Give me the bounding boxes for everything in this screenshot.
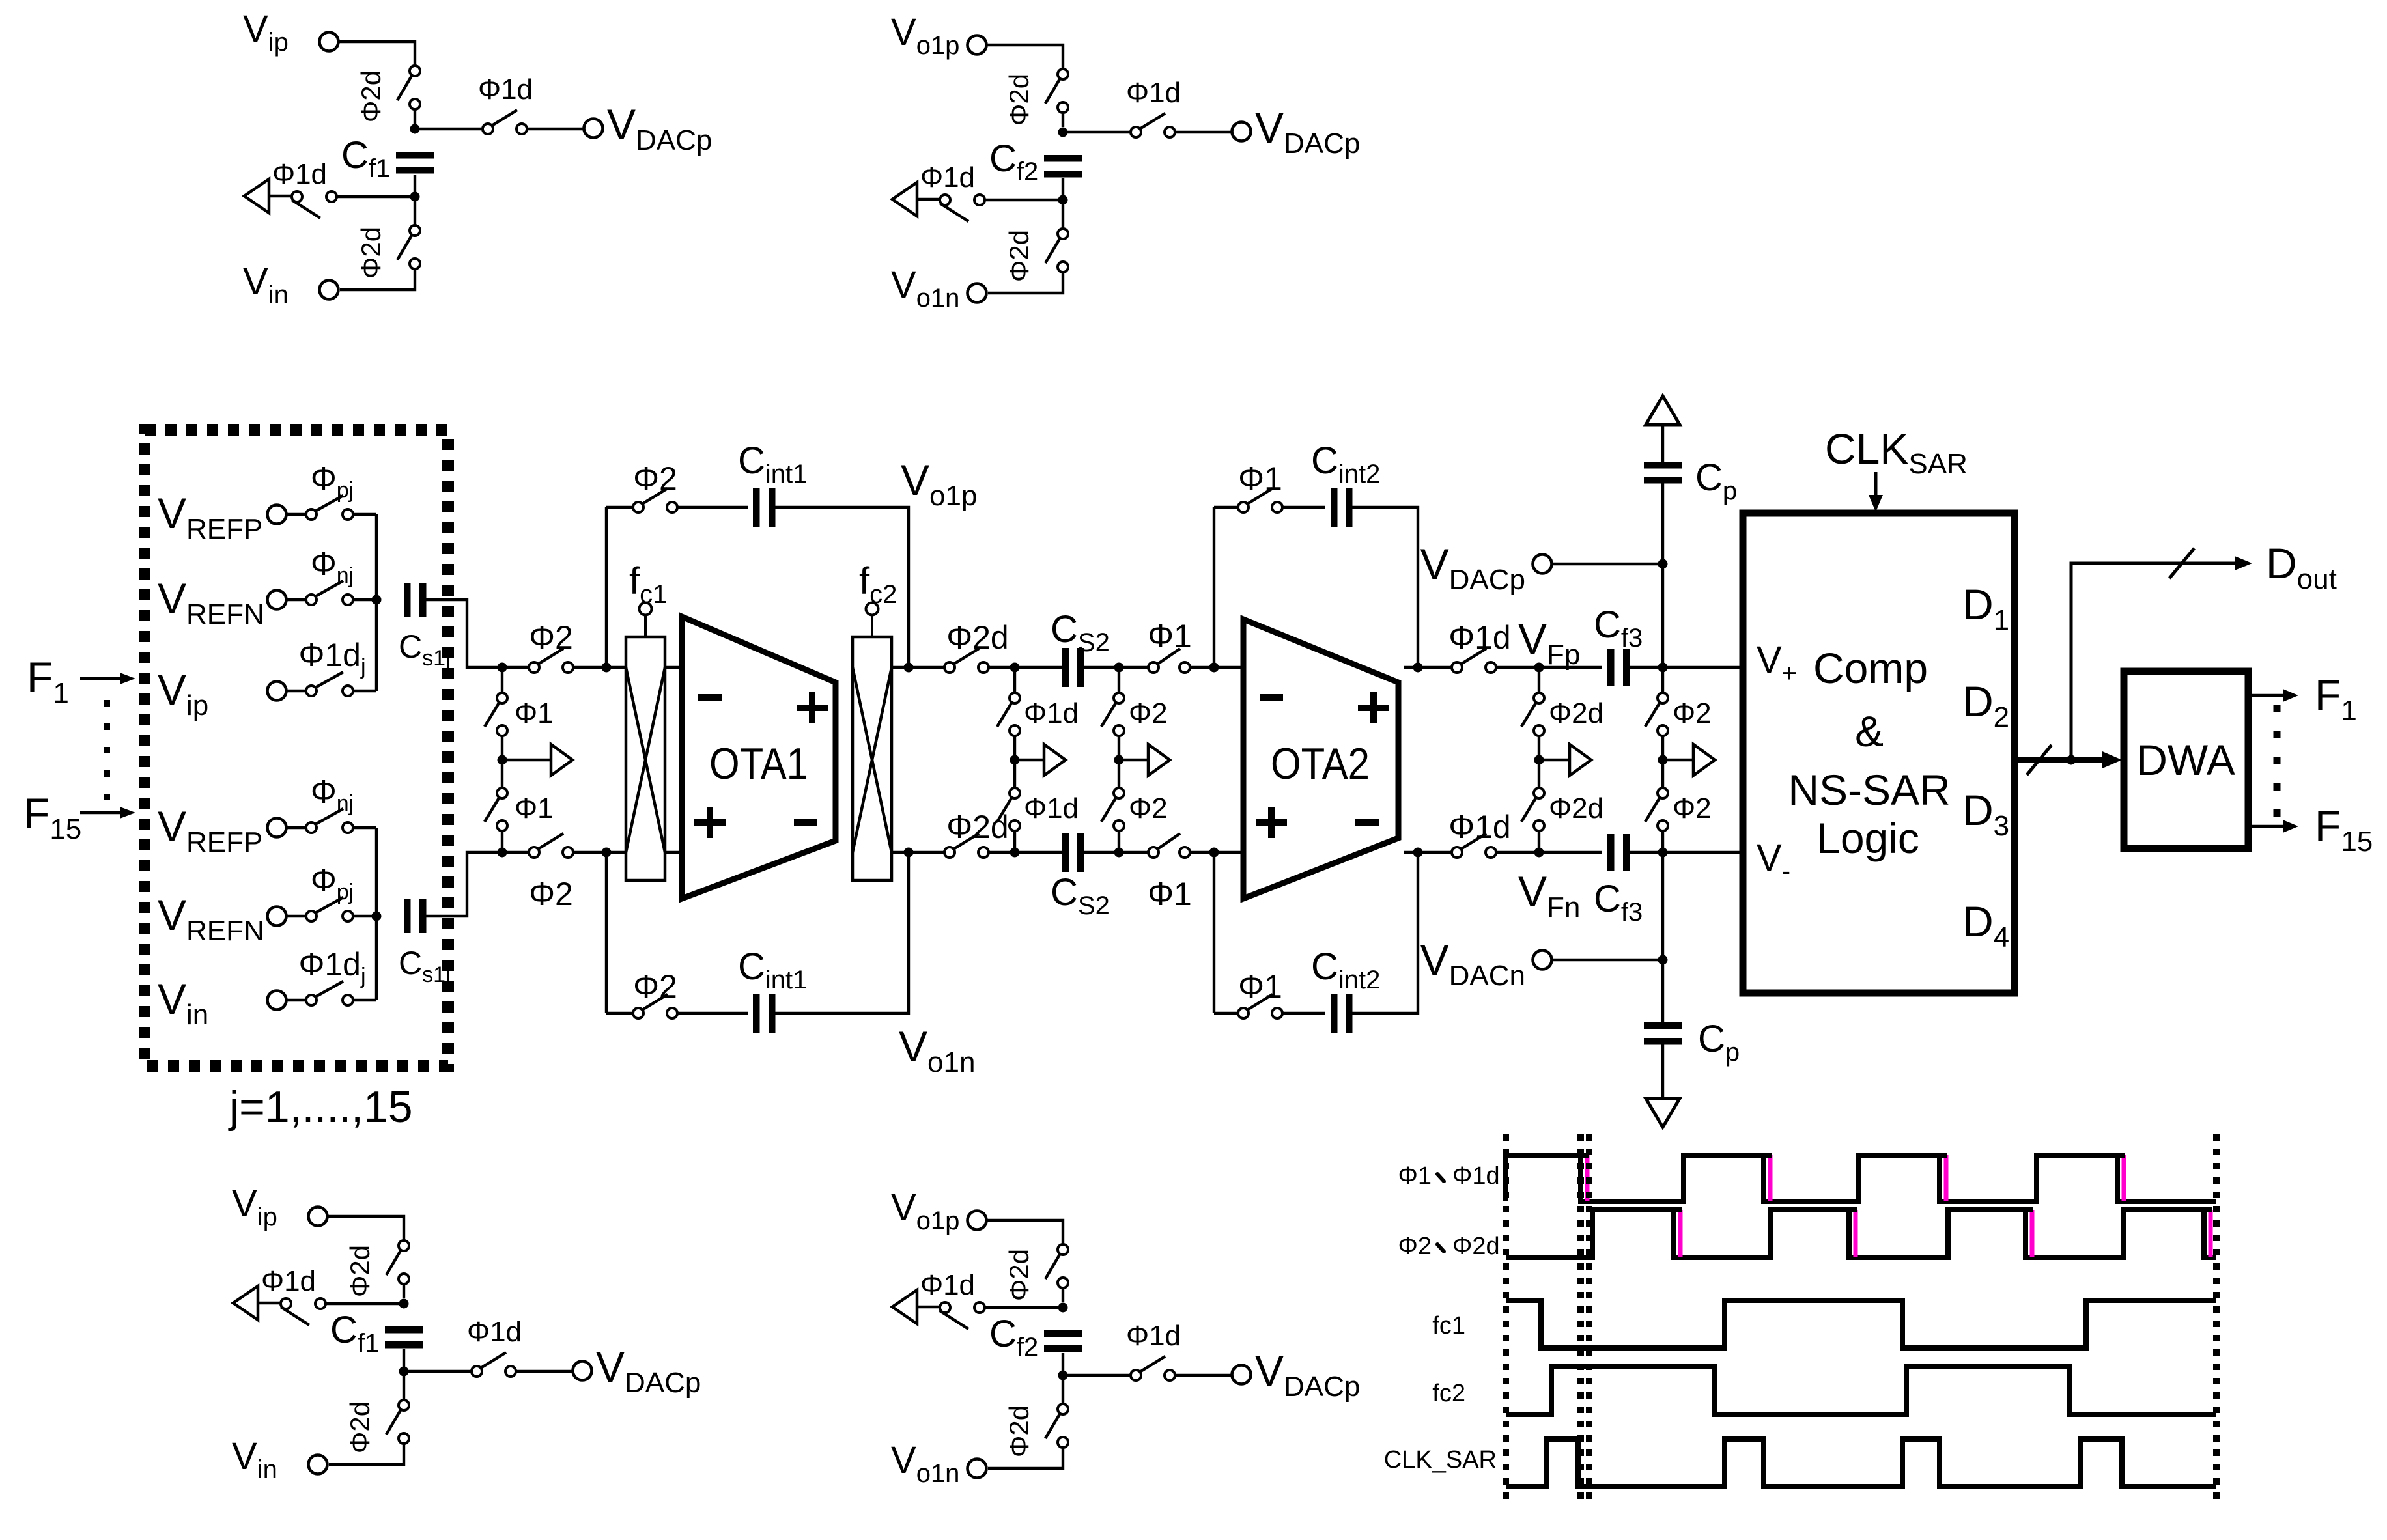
switch Phi2d CM out lower: [1521, 788, 1544, 831]
svg-text:fc1: fc1: [1432, 1312, 1465, 1339]
delayed falling edge marker (Phi1/Phi1d): [1944, 1155, 1949, 1201]
capacitor Cint2 bottom: [1331, 994, 1353, 1033]
capacitor Cs1j upper: [404, 583, 427, 617]
wire: [1062, 178, 1064, 195]
svg-text:Φ1d: Φ1d: [1024, 792, 1079, 824]
wire to bus: [353, 690, 376, 692]
terminal Vin (bottom-left): [309, 1455, 328, 1474]
wire: [414, 109, 416, 124]
svg-text:Φ2d: Φ2d: [1004, 230, 1034, 282]
wire to buffer: [502, 759, 551, 761]
arrowhead F1: [120, 673, 135, 684]
terminal VREFP: [268, 505, 287, 524]
switch Phi2 CM stage2 lower: [1101, 788, 1124, 831]
svg-text:Φ1d: Φ1d: [920, 1269, 975, 1301]
slash bus width Dout: [2169, 548, 2194, 578]
wire: [287, 690, 306, 692]
switch Phi1d to VDACp (bottom-left): [472, 1352, 516, 1377]
svg-text:Φ1: Φ1: [1148, 876, 1192, 912]
OTA1 minus bottom: [794, 819, 817, 826]
wire to CS2 top: [989, 666, 1063, 669]
wire OTA2 out top: [1404, 666, 1452, 669]
wire to CM triangle: [917, 198, 940, 201]
switch Phi1d to VDACp (top-left): [483, 110, 527, 134]
OTA1 plus top: [797, 692, 828, 723]
node feedback tap bottom: [602, 848, 612, 858]
svg-text:NS-SAR: NS-SAR: [1788, 766, 1950, 814]
switch Phi1d to VDACp (top-middle): [1131, 113, 1175, 137]
wire Vip to switch (top-left): [339, 42, 415, 66]
buffer CM stage2b: [1148, 744, 1170, 776]
wire to buffer: [1663, 759, 1693, 761]
block DWA: [2124, 671, 2248, 848]
OTA2 plus bottom: [1256, 807, 1287, 838]
wire: [1538, 831, 1540, 852]
wire to chopper fc1 top: [573, 666, 626, 669]
capacitor Cf1 (top-left): [396, 152, 434, 174]
node CS2 left bottom: [1010, 848, 1020, 858]
CM reference triangle (top-middle): [892, 182, 917, 216]
node Vo1p junction: [904, 663, 914, 673]
node CS2 right bottom: [1114, 848, 1124, 858]
svg-text:Φ2: Φ2: [1129, 697, 1168, 729]
OTA1 minus top: [698, 694, 722, 701]
wire: [1282, 1012, 1325, 1015]
switch Phi2d upper (bottom-left): [386, 1240, 409, 1284]
wire to CM triangle: [917, 1306, 940, 1308]
capacitor Cp bottom: [1644, 1022, 1682, 1045]
wire to buffer: [1015, 759, 1044, 761]
switch Phi1 feedback2 top: [1238, 488, 1282, 512]
svg-text:Φ2: Φ2: [1129, 792, 1168, 824]
svg-text:Φ2d: Φ2d: [946, 809, 1009, 845]
terminal VDACp (top-left): [584, 119, 603, 138]
wire to Vo1n terminal: [988, 272, 1063, 293]
svg-text:Φ2d: Φ2d: [1004, 1249, 1034, 1301]
node bus lower junction: [372, 912, 382, 921]
wire Vo1p to switch (bottom-middle): [987, 1220, 1063, 1244]
wire: [1214, 506, 1238, 509]
wire: [1118, 667, 1120, 693]
switch Phi2d output bottom: [944, 833, 989, 858]
node OTA2 in bottom: [1209, 848, 1219, 858]
arrowhead F15: [120, 807, 135, 819]
wire Vip to switch (bottom-left): [328, 1216, 404, 1240]
wire to Phi1d switch: [1063, 131, 1131, 133]
svg-text:Φ1: Φ1: [1238, 968, 1282, 1005]
wire fc2 to Phi2d top: [892, 666, 952, 669]
svg-text:Φ2d: Φ2d: [356, 227, 386, 279]
wire to Phi1d CM switch: [985, 1306, 1063, 1309]
node CS2 right top: [1114, 663, 1124, 673]
wire: [287, 915, 306, 917]
switch Phi1d to CM (bottom-left): [281, 1298, 326, 1325]
wire feedback2 top to output: [1352, 507, 1418, 667]
svg-text:Φ1d: Φ1d: [920, 161, 975, 193]
svg-text:Φ2d: Φ2d: [1452, 1233, 1500, 1260]
node Dout tap: [2067, 755, 2076, 765]
supply triangle top: [1646, 396, 1680, 425]
wire to Phi1d CM switch: [337, 195, 415, 198]
wire: [1282, 506, 1325, 509]
wire VDACn: [1552, 959, 1663, 961]
waveform Phi2/Phi2d: [1506, 1210, 2216, 1257]
svg-text:Φ2d: Φ2d: [356, 70, 386, 122]
CM reference triangle (top-left): [244, 179, 269, 213]
wire feedback top to output: [774, 507, 909, 667]
switch Phi1 upper CM: [485, 693, 507, 736]
svg-text:CLK_SAR: CLK_SAR: [1384, 1446, 1497, 1474]
svg-text:Φ2: Φ2: [1673, 792, 1712, 824]
waveform Phi1/Phi1d: [1506, 1155, 2216, 1201]
switch Φnj: [306, 581, 353, 605]
wire: [287, 999, 306, 1001]
wire to comparator V-: [1629, 851, 1743, 854]
wire VFp: [1496, 666, 1602, 669]
svg-text:Φ1: Φ1: [515, 792, 554, 824]
wire to bus: [353, 999, 376, 1001]
OTA1 plus bottom: [694, 807, 726, 838]
wire: [1214, 1012, 1238, 1015]
arrowhead CLK_SAR: [1869, 495, 1883, 512]
svg-text:Φ1dj: Φ1dj: [298, 637, 365, 679]
wire: [1538, 667, 1540, 693]
dashed box: capacitor DAC slice j: [145, 430, 448, 1066]
dotted cursor line: [2213, 1134, 2220, 1504]
switch Phi2d lower (bottom-middle): [1045, 1404, 1068, 1448]
capacitor CS2 top: [1062, 648, 1084, 687]
node CM junction stage2b: [1114, 755, 1124, 765]
wire: [606, 1012, 633, 1015]
wire: [1013, 831, 1016, 852]
node bus upper junction: [372, 595, 382, 605]
wire: [1538, 736, 1540, 788]
switch Phi2 CM comp upper: [1645, 693, 1668, 736]
wire: [1062, 1353, 1064, 1371]
node V+ junction: [1658, 663, 1668, 673]
svg-text:Φ1d: Φ1d: [478, 74, 533, 105]
wire Dout branch: [2071, 563, 2237, 760]
switch Phi1d to VDACp (bottom-middle): [1131, 1356, 1175, 1380]
wire feedback2 bottom vertical: [1213, 852, 1215, 1013]
wire to OTA2 bottom: [1190, 851, 1243, 854]
terminal Vip (bottom-left): [309, 1207, 328, 1226]
switch Phi2 CM stage2 upper: [1101, 693, 1124, 736]
wire: [1062, 1380, 1064, 1404]
label Phi1, Phi1d: [1398, 1162, 1500, 1190]
wire: [1062, 113, 1064, 127]
wire to OTA2 top: [1190, 666, 1243, 669]
wire: [1118, 736, 1120, 788]
node feedback2 tap top: [1413, 663, 1423, 673]
wire Cs1j to top rail: [425, 600, 529, 667]
dotted line between F1 and F15: [104, 700, 110, 800]
wire to VDACp terminal: [527, 128, 584, 130]
wire CS2 to Phi1 top: [1084, 666, 1148, 669]
wire to CM triangle: [258, 1302, 281, 1304]
svg-text:Φ2: Φ2: [1673, 697, 1712, 729]
switch Phi1d out bottom: [1452, 833, 1496, 858]
svg-text:Φ1d: Φ1d: [1126, 77, 1181, 109]
capacitor Cint1 top: [753, 488, 776, 527]
wire: [677, 1012, 748, 1015]
wire: [403, 1284, 405, 1298]
dotted cursor line: [1503, 1134, 1509, 1504]
waveform fc2: [1506, 1367, 2216, 1414]
wire: [287, 598, 306, 601]
CM reference triangle (bottom-left): [233, 1286, 258, 1320]
wire to buffer: [1119, 759, 1148, 761]
switch Phi2d upper (top-middle): [1045, 69, 1068, 113]
node CM junction comp: [1658, 755, 1668, 765]
wire: [1013, 667, 1016, 693]
svg-text:Φ1d: Φ1d: [467, 1316, 522, 1348]
wire feedback bottom to output: [774, 852, 909, 1013]
wire feedback2 bottom to output: [1352, 852, 1418, 1013]
wire chopper to OTA1 bottom: [665, 851, 682, 854]
node VFp: [1534, 663, 1544, 673]
wire to Phi1d switch: [404, 1370, 472, 1373]
svg-text:Φ2d: Φ2d: [1549, 697, 1603, 729]
wire to Vin terminal: [329, 1444, 404, 1464]
buffer CM comp: [1693, 744, 1715, 776]
switch Phi1d CM stage2 upper: [997, 693, 1020, 736]
wire VDACp: [1552, 563, 1663, 565]
node CM junction input: [498, 755, 507, 765]
terminal Vip (top-left): [320, 33, 339, 51]
node bottom of Cf2 (bottom-middle): [1058, 1371, 1068, 1380]
wire DAC bus lower: [375, 828, 378, 1000]
node CM junction out: [1534, 755, 1544, 765]
capacitor Cs1j lower: [404, 899, 427, 933]
arrowhead F1 out: [2283, 689, 2298, 702]
svg-text:Φ2d: Φ2d: [1004, 1405, 1034, 1457]
node CS2 left top: [1010, 663, 1020, 673]
wire F1 out: [2248, 694, 2283, 697]
terminal Vo1p (bottom-middle): [968, 1211, 987, 1230]
wire: [1661, 426, 1664, 462]
switch Φ1dj: [306, 981, 353, 1005]
wire DAC bus upper: [375, 514, 378, 691]
terminal Vin (top-left): [320, 281, 339, 300]
arrowhead into DWA: [2102, 751, 2122, 768]
wire: [501, 736, 503, 788]
op-amp OTA2: [1243, 619, 1398, 899]
node feedback2 tap bottom: [1413, 848, 1423, 858]
capacitor Cint1 bottom: [753, 994, 776, 1033]
svg-text:j=1,....,15: j=1,....,15: [228, 1082, 413, 1132]
svg-text:Φ1d: Φ1d: [1452, 1162, 1500, 1190]
switch Phi1d to CM (top-left): [292, 191, 337, 218]
svg-text:Φ1d: Φ1d: [1024, 697, 1079, 729]
terminal VDACp main: [1533, 555, 1552, 574]
wire: [1062, 204, 1064, 229]
slash bus width comp out: [2027, 745, 2052, 775]
node bottom of Cf1 (top-left): [410, 192, 420, 202]
switch Φ1dj: [306, 672, 353, 696]
waveform fc1: [1506, 1300, 2216, 1348]
switch Phi1 into OTA2 bottom: [1148, 833, 1190, 858]
svg-text:Logic: Logic: [1816, 814, 1919, 862]
dotted cursor line: [1577, 1134, 1584, 1504]
svg-text:Comp: Comp: [1813, 644, 1928, 692]
delayed falling edge marker (Phi2/Phi2d): [1678, 1210, 1683, 1257]
switch Phi1 into OTA2 top: [1148, 649, 1190, 673]
capacitor Cint2 top: [1331, 488, 1353, 527]
switch Phi2 feedback top: [633, 488, 677, 512]
capacitor Cf2 (bottom-middle): [1044, 1330, 1082, 1352]
svg-text:OTA1: OTA1: [709, 739, 808, 789]
terminal Vo1p (top-middle): [968, 36, 987, 55]
wire: [403, 1376, 405, 1400]
wire: [606, 506, 633, 509]
wire V- to Cp bottom: [1661, 852, 1664, 1023]
svg-text:Φ2d: Φ2d: [1004, 74, 1034, 126]
switch Phi2 CM comp lower: [1645, 788, 1668, 831]
chopper fc2: [853, 603, 892, 881]
wire: [1661, 667, 1664, 693]
node VDACp junction: [1658, 559, 1668, 569]
terminal VDACn main: [1533, 951, 1552, 970]
svg-text:Φ1: Φ1: [515, 697, 554, 729]
wire: [1013, 736, 1016, 788]
switch Φpj: [306, 897, 353, 921]
wire to bus: [353, 915, 376, 917]
node bottom of Cf2 (top-middle): [1058, 195, 1068, 205]
switch Φpj: [306, 496, 353, 520]
node feedback tap top: [602, 663, 612, 673]
svg-text:Φ1d: Φ1d: [1448, 619, 1511, 656]
node top of Cf2 (top-middle): [1058, 128, 1068, 137]
svg-text:fc2: fc2: [1432, 1380, 1465, 1407]
svg-text:Φ1dj: Φ1dj: [298, 946, 365, 988]
buffer CM input: [551, 744, 572, 776]
op-amp OTA1: [682, 617, 836, 899]
OTA2 plus top: [1358, 692, 1389, 723]
waveform CLK_SAR: [1506, 1439, 2216, 1487]
terminal Vin: [268, 991, 287, 1010]
switch Phi1d out top: [1452, 649, 1496, 673]
terminal VREFN: [268, 591, 287, 609]
wire to Vo1n terminal: [988, 1448, 1063, 1468]
svg-text:Φ1d: Φ1d: [261, 1265, 316, 1297]
wire feedback top vertical: [605, 507, 608, 667]
wire: [1661, 831, 1664, 852]
wire chopper to OTA1 top: [665, 666, 682, 669]
wire Vo1p to switch (top-middle): [987, 45, 1063, 69]
wire OTA2 out bottom: [1404, 851, 1452, 854]
wire: [1661, 736, 1664, 788]
OTA2 minus top: [1260, 694, 1283, 701]
wire to Phi1d CM switch: [326, 1302, 404, 1305]
wire Cp top to V+ node: [1661, 480, 1664, 667]
capacitor CS2 bottom: [1062, 833, 1084, 872]
wire to comparator V+: [1629, 666, 1743, 669]
delayed falling edge marker (Phi2/Phi2d): [2209, 1210, 2213, 1257]
arrowhead Dout: [2235, 556, 2252, 570]
wire to CS2 bottom: [989, 851, 1063, 854]
wire: [287, 826, 306, 829]
svg-text:Φ1: Φ1: [1148, 618, 1192, 654]
svg-text:&: &: [1855, 707, 1884, 755]
wire VFn: [1496, 851, 1602, 854]
terminal VREFP: [268, 819, 287, 837]
wire: [287, 513, 306, 516]
wire to Phi1d CM switch: [985, 199, 1063, 201]
switch Phi1d to CM (top-middle): [940, 195, 985, 221]
svg-text:Φ2d: Φ2d: [1549, 792, 1603, 824]
node V- junction: [1658, 848, 1668, 858]
switch Phi1d to CM (bottom-middle): [940, 1302, 985, 1329]
chopper fc1: [626, 603, 665, 881]
wire F15 arrow: [80, 811, 128, 814]
switch Phi2d output top: [944, 649, 989, 673]
node CM junction stage2: [1010, 755, 1020, 765]
svg-text:Φ2: Φ2: [633, 968, 677, 1005]
wire F15 out: [2248, 825, 2283, 828]
terminal Vo1n (top-middle): [968, 284, 987, 303]
terminal VDACp (bottom-middle): [1232, 1365, 1251, 1384]
block Comp & NS-SAR Logic: [1743, 513, 2014, 993]
svg-text:Φ1: Φ1: [1398, 1162, 1432, 1190]
delayed falling edge marker (Phi2/Phi2d): [2030, 1210, 2035, 1257]
wire: [1062, 1288, 1064, 1302]
node top of Cf1 (bottom-left): [399, 1299, 409, 1309]
node bottom of Cf1 (bottom-left): [399, 1367, 409, 1377]
wire: [677, 506, 748, 509]
node OTA2 in top: [1209, 663, 1219, 673]
switch Phi2 top rail: [529, 649, 573, 673]
wire: [1118, 831, 1120, 852]
svg-text:DWA: DWA: [2136, 736, 2235, 784]
wire to VDACp terminal: [1175, 131, 1232, 133]
wire to bus: [353, 826, 376, 829]
svg-text:Φ2: Φ2: [633, 460, 677, 497]
switch Phi2d lower (top-middle): [1045, 229, 1068, 272]
wire fc2 to Phi2d bottom: [892, 851, 952, 854]
node top of Cf2 (bottom-middle): [1058, 1303, 1068, 1313]
buffer CM out: [1570, 744, 1591, 776]
svg-text:Φ2d: Φ2d: [345, 1245, 375, 1297]
terminal VREFN: [268, 907, 287, 926]
switch Phi2d lower (bottom-left): [386, 1400, 409, 1444]
wire to bus: [353, 598, 376, 601]
svg-text:Φ2: Φ2: [1398, 1233, 1432, 1260]
wire: [501, 667, 503, 693]
wire: [414, 175, 416, 192]
svg-text:Φ1d: Φ1d: [272, 158, 327, 190]
node top of Cf1 (top-left): [410, 124, 420, 134]
svg-text:Φ1d: Φ1d: [1448, 809, 1511, 845]
wire: [501, 831, 503, 852]
svg-text:Φ1d: Φ1d: [1126, 1320, 1181, 1352]
switch Phi2d CM out upper: [1521, 693, 1544, 736]
delayed falling edge marker (Phi1/Phi1d): [1768, 1155, 1773, 1201]
wire to CM triangle: [269, 195, 292, 197]
wire Cs1j to bottom rail: [425, 852, 529, 916]
delayed falling edge marker (Phi1/Phi1d): [2122, 1155, 2126, 1201]
arrowhead F15 out: [2283, 820, 2298, 833]
capacitor Cf3 bottom: [1607, 834, 1630, 871]
terminal Vo1n (bottom-middle): [968, 1459, 987, 1478]
wire to chopper fc1 bottom: [573, 851, 626, 854]
switch Phi2 bottom rail: [529, 833, 573, 858]
wire to bus: [353, 513, 376, 516]
svg-text:Φ1: Φ1: [1238, 460, 1282, 497]
capacitor Cf3 top: [1607, 649, 1630, 686]
wire feedback2 top vertical: [1213, 507, 1215, 667]
capacitor Cf2 (top-middle): [1044, 155, 1082, 178]
